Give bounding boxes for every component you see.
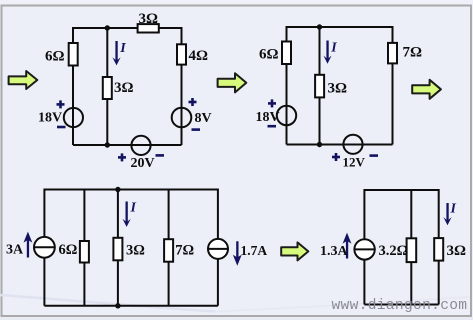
resistor 3ohm c3 [113,238,122,260]
wire: middle branch c1 [106,28,108,145]
source arrow 3A c3 [24,232,33,258]
svg-text:18V: 18V [38,111,62,126]
node at top of middle branch c3 [115,187,120,192]
minus sign 8V c1 [192,128,201,131]
resistor 7ohm c3 [164,239,173,262]
current source 1.3A c4 [354,239,374,259]
svg-text:3.2Ω: 3.2Ω [379,243,409,259]
minus sign 20V c1 [156,154,165,157]
current source 3A c3 [34,237,55,258]
current arrow I c4 [443,203,451,225]
plus sign 18V c1 [57,100,65,108]
plus sign 8V c1 [189,98,197,106]
svg-text:4Ω: 4Ω [189,48,209,64]
resistor 3ohm c4 [434,238,443,261]
resistor 4ohm c1 [177,44,186,64]
svg-text:6Ω: 6Ω [45,49,65,65]
wire: right branch c4 [438,189,440,305]
resistor 3ohm top c1 [138,24,159,32]
svg-text:3Ω: 3Ω [139,11,159,27]
wire: top side c4 [364,189,438,191]
wire: right side c2 [392,26,394,145]
wire: middle branch c3 [117,190,119,306]
wire: left branch c4 [363,189,365,305]
resistor 3.2ohm c4 [407,238,417,262]
svg-text:3Ω: 3Ω [114,80,134,96]
wire: bottom side c2 [287,144,393,146]
svg-text:I: I [119,41,126,56]
resistor 3ohm middle c1 [103,77,112,99]
resistor 3ohm c2 [315,75,324,98]
wire: left side c1 [72,27,74,145]
plus sign 12V c2 [332,153,340,161]
node at bottom of middle branch c1 [105,142,110,147]
wire: left branch c3 [43,189,45,306]
node at top of middle branch c1 [105,25,110,30]
resistor 6ohm c2 [282,42,291,65]
svg-text:www.diangon.com: www.diangon.com [332,298,468,314]
source arrow 1.3A c4 [343,233,352,259]
svg-text:8V: 8V [195,111,212,126]
green block arrow 3 (right of c2) [412,80,441,99]
svg-text:7Ω: 7Ω [403,45,423,61]
resistor 6ohm c3 [80,241,89,263]
wire: right branch c3 [217,189,219,306]
current source 1.7A c3 [208,239,228,259]
wire: branch 6ohm c3 [83,190,85,306]
green block arrow 2 (c1 to c2) [218,73,247,92]
decorative swoosh [0,295,215,312]
svg-text:18V: 18V [256,110,280,125]
voltage source 18V c1 [64,108,83,127]
outer bottom strip shading [0,317,473,320]
minus sign 18V c2 [268,125,277,128]
green block arrow 1 (left of c1) [9,71,38,89]
wire: bottom side c4 [364,304,438,306]
wire: bottom side c1 [73,144,182,146]
voltage source 20V c1 [131,136,150,155]
svg-text:3Ω: 3Ω [447,243,467,259]
plus sign 18V c2 [268,99,276,107]
wire: left side c2 [286,26,288,145]
svg-text:3Ω: 3Ω [328,81,348,97]
wire: top side c2 [287,26,393,28]
voltage source 12V c2 [343,135,362,154]
svg-text:1.3A: 1.3A [320,244,349,259]
wire: middle branch c4 [410,190,412,305]
source arrow 1.7A c3 [233,241,242,265]
svg-text:7Ω: 7Ω [175,243,194,259]
node at bottom of middle branch c3 [115,303,120,308]
svg-text:6Ω: 6Ω [59,242,78,258]
wire: bottom side c3 [44,305,218,307]
svg-text:3A: 3A [6,243,24,258]
svg-text:12V: 12V [343,155,366,170]
minus sign 12V c2 [370,154,379,157]
svg-text:20V: 20V [131,156,155,171]
wire: right side c1 [181,27,183,145]
current arrow I c2 [323,41,331,64]
node at top of middle branch c2 [317,24,322,29]
svg-text:1.7A: 1.7A [241,243,268,258]
svg-text:3Ω: 3Ω [126,243,145,259]
voltage source 8V c1 [172,108,192,128]
svg-text:6Ω: 6Ω [259,47,279,63]
wire: middle branch c2 [319,27,321,145]
svg-text:I: I [330,41,337,56]
minus sign 18V c1 [57,126,66,129]
current arrow I c3 [123,202,131,227]
node at bottom of middle branch c2 [317,142,322,147]
svg-text:I: I [450,202,457,217]
svg-text:I: I [130,201,137,216]
current arrow I c1 [112,41,120,65]
wire: branch 7ohm c3 [168,190,170,306]
wire: top side c3 [44,189,218,191]
wire: top side c1 [73,27,182,29]
voltage source 18V c2 [277,106,296,125]
resistor 6ohm c1 [69,43,78,66]
plus sign 20V c1 [118,153,126,161]
resistor 7ohm c2 [388,43,397,64]
green block arrow 4 (c3 to c4) [281,242,308,260]
